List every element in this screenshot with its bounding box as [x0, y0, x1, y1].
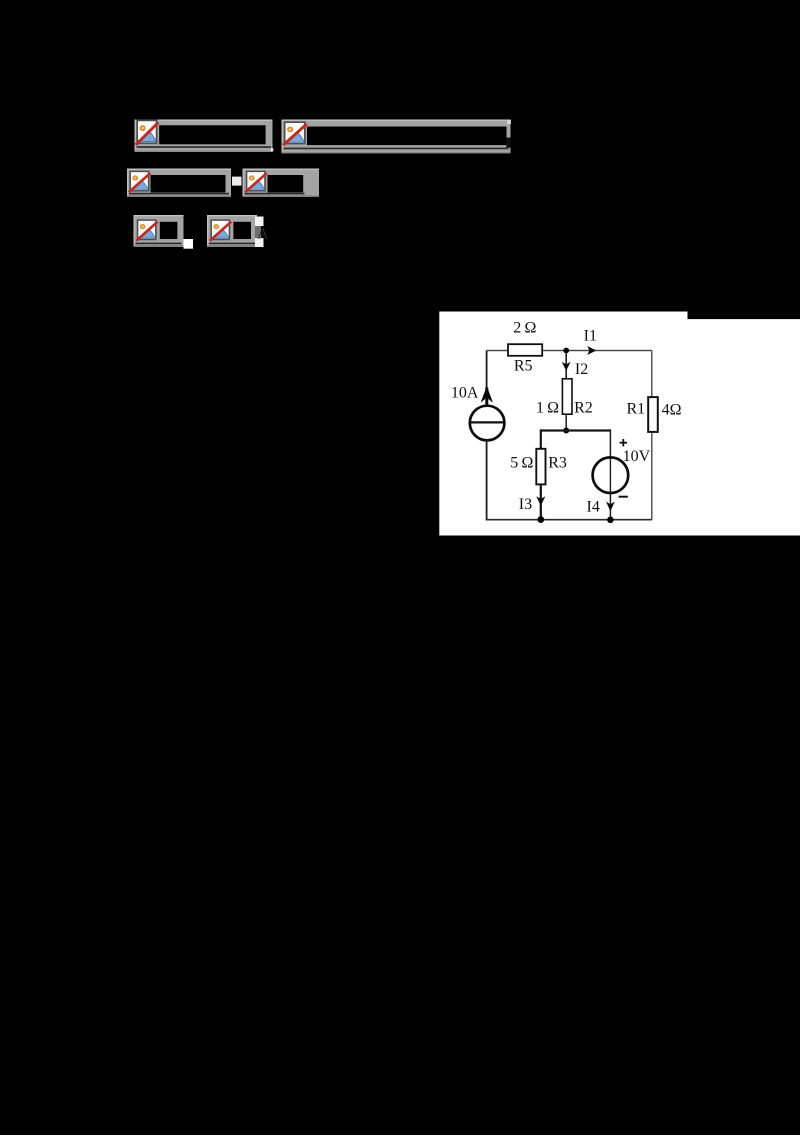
broken-image placeholder box 2: [282, 120, 511, 154]
svg-text:I2: I2: [575, 361, 588, 378]
wire: right vertical: [651, 351, 653, 520]
wire: bottom horizontal: [486, 519, 652, 521]
node: junction of R5, R2, I1: [563, 348, 569, 354]
svg-text:R5: R5: [514, 357, 533, 374]
resistor R1: [648, 397, 658, 432]
broken-image placeholder box 4: [243, 169, 320, 198]
svg-text:I4: I4: [587, 498, 600, 515]
polarity minus sign: [619, 496, 628, 498]
svg-text:A: A: [257, 226, 269, 243]
broken-image placeholder box 3: [127, 169, 231, 198]
current arrow I2 and wire to R2: [562, 353, 588, 379]
wire: left vertical (current source branch): [486, 351, 488, 520]
broken-image placeholder box 1: [135, 120, 274, 153]
svg-text:10V: 10V: [623, 448, 651, 465]
svg-text:5 Ω: 5 Ω: [510, 455, 533, 472]
svg-text:1 Ω: 1 Ω: [536, 399, 559, 416]
resistor R2: [562, 379, 572, 414]
broken-image placeholder box 6: [207, 215, 264, 247]
wire: R2 bottom to junction: [565, 414, 567, 430]
resistor R3: [536, 449, 545, 485]
polarity plus sign: [620, 439, 627, 446]
node: bottom left junction: [537, 516, 544, 523]
broken-image placeholder box 5: [134, 215, 184, 247]
wire: middle horizontal: [541, 429, 611, 431]
node: bottom right junction: [607, 517, 614, 524]
svg-text:2 Ω: 2 Ω: [513, 319, 536, 336]
resistor R5: [508, 344, 542, 356]
svg-text:R2: R2: [574, 399, 593, 416]
equals mark between box 3 and box 4: [232, 177, 242, 186]
white block after box 5: [184, 239, 194, 249]
wire: junction down-left to R3: [540, 429, 542, 448]
svg-text:4Ω: 4Ω: [662, 401, 682, 418]
node: middle junction: [563, 428, 569, 434]
wire: junction down-right to voltage source: [609, 429, 611, 519]
svg-text:I3: I3: [519, 496, 532, 513]
current source IS 10A with arrow: [470, 386, 505, 440]
voltage source VS 10V: [593, 457, 629, 493]
wire: R3 to bottom with current arrow I3: [519, 484, 546, 518]
svg-text:I1: I1: [584, 328, 597, 345]
current arrow I1: [584, 328, 597, 355]
wire: top horizontal: [487, 350, 652, 352]
svg-text:R1: R1: [626, 400, 645, 417]
svg-text:R3: R3: [548, 455, 567, 472]
current arrow I4: [587, 498, 615, 515]
svg-text:10A: 10A: [451, 385, 479, 402]
white circuit panel: [439, 312, 800, 536]
